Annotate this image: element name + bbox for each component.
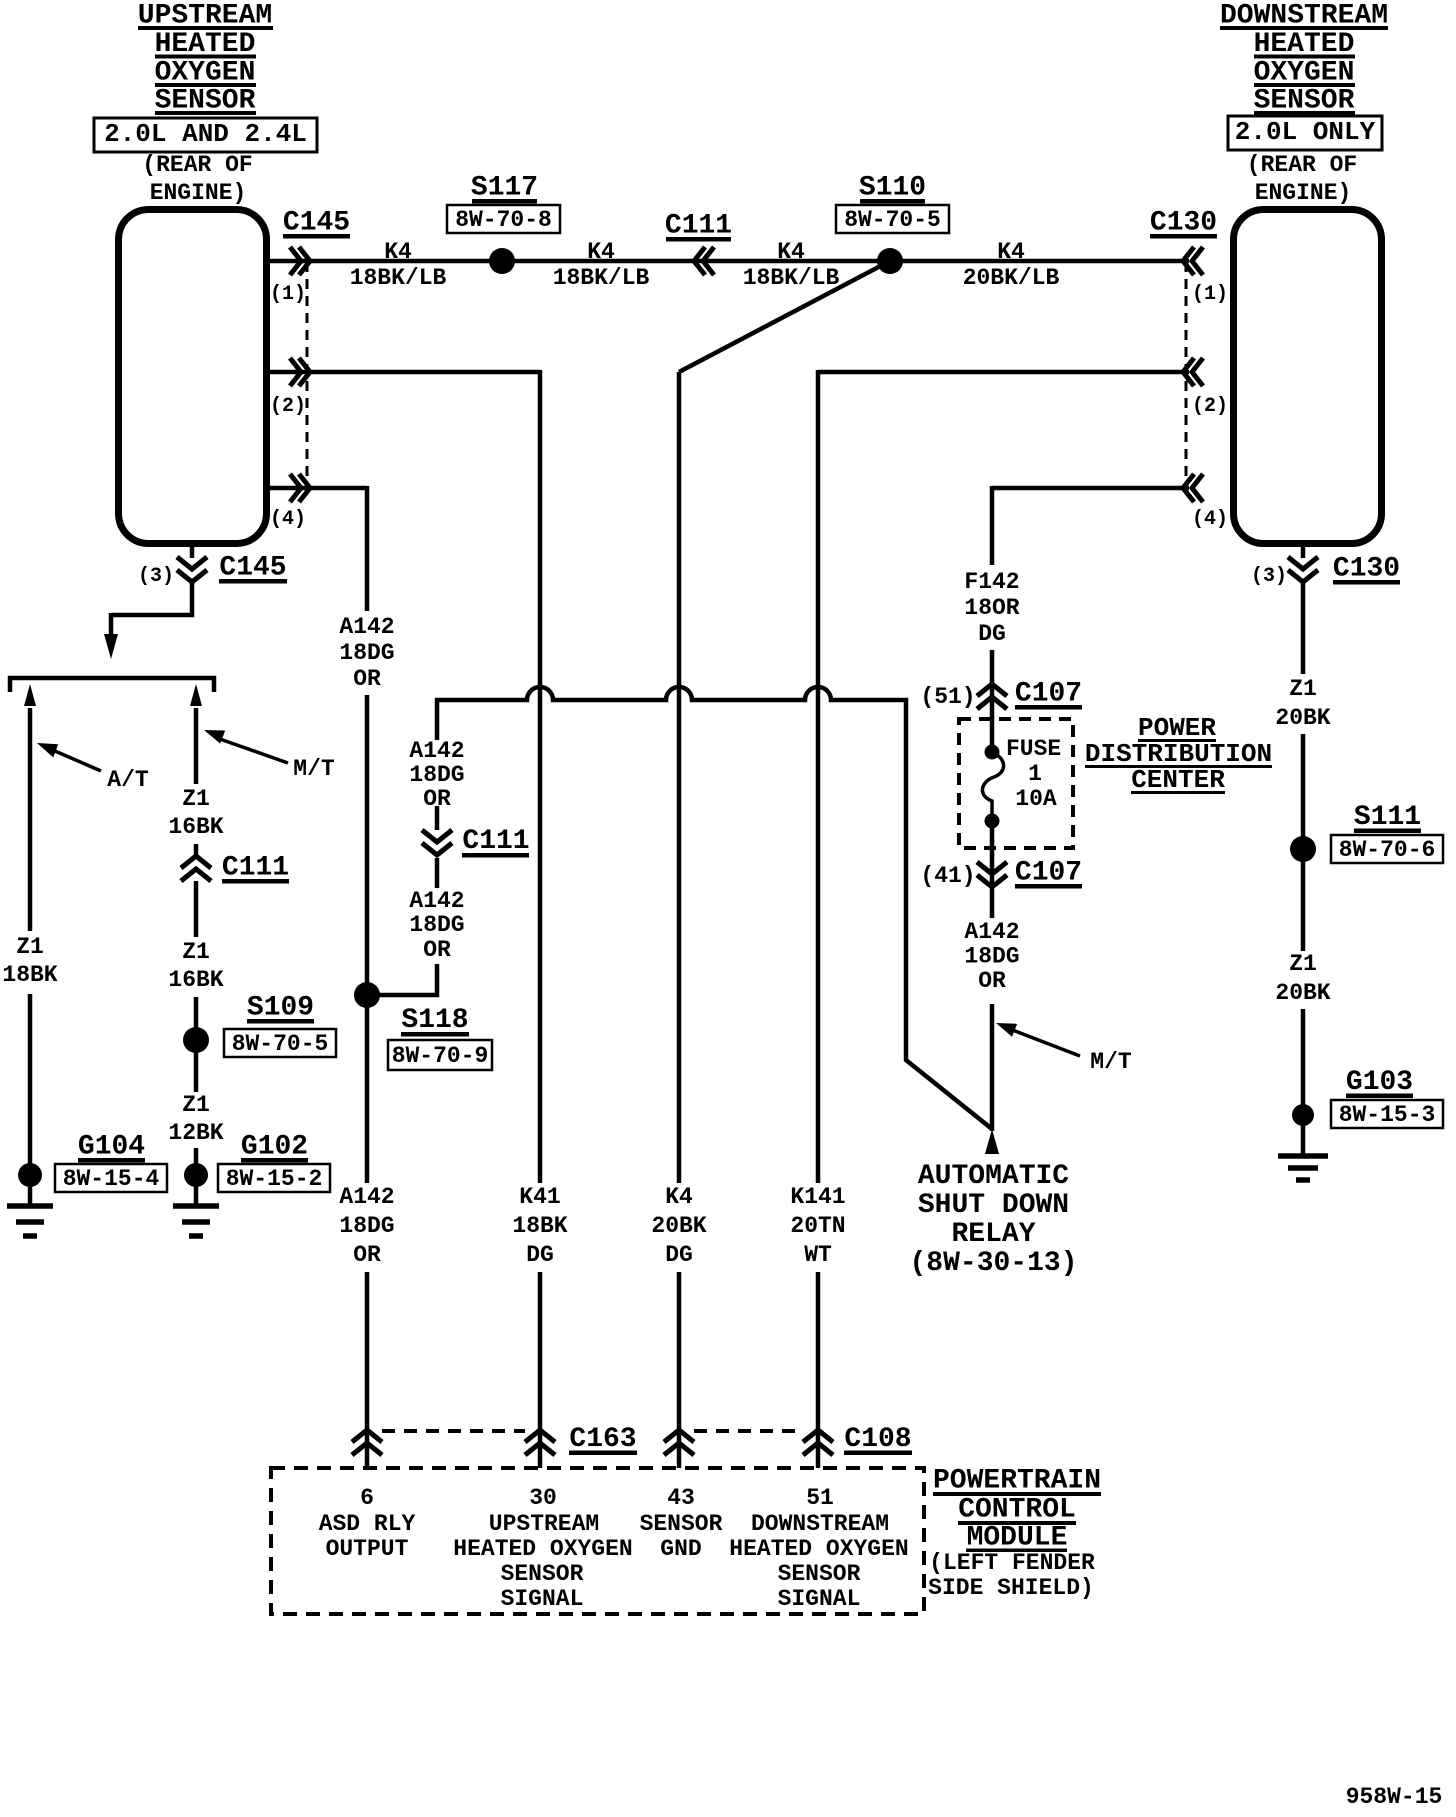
label power distribution center [1085,713,1272,795]
svg-text:C145: C145 [283,208,350,239]
wire K41 vertical seg2 [538,1272,543,1468]
svg-text:K41: K41 [519,1184,560,1210]
ground G103 label [1331,1067,1443,1128]
wire C145 pin3 to selector arrow [111,582,192,615]
ASD relay connection arrowhead [985,1129,999,1154]
svg-text:SENSOR: SENSOR [778,1561,861,1587]
wire K4 from C145 pin1 to C130 pin1 [266,259,1189,264]
svg-text:A142: A142 [339,1184,394,1210]
arrowhead M/T branch [190,684,202,706]
label wire K141 20TN WT [790,1184,845,1268]
splice S118 junction dot [354,982,380,1008]
connector C130 pin1 chevron [1183,247,1203,275]
svg-text:Z1: Z1 [182,786,210,812]
wire Z1 downstream seg2 [1301,734,1306,951]
label wire K4 18BK/LB segment 3 [743,239,840,291]
connector C111 top chevron [694,247,714,275]
svg-text:8W-70-8: 8W-70-8 [455,207,552,233]
svg-text:S111: S111 [1354,802,1421,833]
label wire Z1 16BK upper [168,786,223,840]
wire S118 branch horizontal [367,964,437,995]
ground G102 label [218,1132,330,1193]
svg-text:20BK: 20BK [1275,980,1330,1006]
svg-text:6: 6 [360,1485,374,1511]
connector C163 pin30 chevron [525,1430,555,1455]
svg-text:SIGNAL: SIGNAL [778,1586,861,1612]
wire F142 vertical seg2 [990,650,995,751]
svg-text:C111: C111 [665,211,732,242]
wire C145 pin4 A142 horizontal [266,486,367,491]
label downstream heated oxygen sensor title [1220,1,1388,117]
svg-text:8W-70-6: 8W-70-6 [1339,837,1436,863]
svg-text:M/T: M/T [1090,1049,1132,1075]
svg-text:K141: K141 [790,1184,845,1210]
pin 6 ASD RLY OUTPUT [319,1485,416,1562]
svg-text:12BK: 12BK [168,1120,223,1146]
wire Z1 M/T branch seg4 [194,997,199,1092]
svg-text:OR: OR [423,937,451,963]
wire A142 vertical seg1 [365,486,370,611]
wire Z1 M/T branch seg5 [194,1148,199,1205]
svg-text:(4): (4) [270,508,306,531]
svg-text:(LEFT FENDER: (LEFT FENDER [929,1550,1095,1576]
label 2.0L AND 2.4L box [94,118,317,152]
svg-text:ENGINE): ENGINE) [1255,180,1352,206]
wire K4 sensor ground vertical seg2 [677,1272,682,1468]
connector C107 upper label [1015,679,1082,710]
svg-text:8W-15-4: 8W-15-4 [63,1166,160,1192]
wire Z1 M/T branch seg2 [194,844,199,856]
connector C111 left label [222,853,289,884]
connector C107 pin51 chevron [977,684,1007,709]
svg-text:8W-70-9: 8W-70-9 [392,1043,489,1069]
svg-text:A142: A142 [409,738,464,764]
label rear of engine left [142,152,252,206]
connector C145 pin1 chevron [290,247,310,275]
connector C145 label top [283,208,350,239]
label wire K4 18BK/LB segment 2 [553,239,650,291]
label wire A142 18DG OR lower [339,1184,394,1268]
connector C145 pin3 chevron [177,557,207,582]
splice S110 junction dot [877,248,903,274]
ground G104 symbol [7,1206,53,1236]
label upstream heated oxygen sensor title [138,1,273,117]
label 2.0L ONLY box [1228,116,1382,150]
svg-text:S118: S118 [401,1005,468,1036]
svg-text:958W-15: 958W-15 [1346,1784,1443,1810]
wire S118 branch vertical seg2 [435,858,440,888]
svg-text:DOWNSTREAM: DOWNSTREAM [751,1511,889,1537]
svg-text:(2): (2) [1192,395,1228,418]
arrow pointer A/T [48,748,101,771]
svg-text:18BK/LB: 18BK/LB [350,265,447,291]
svg-text:8W-70-5: 8W-70-5 [232,1031,329,1057]
svg-text:51: 51 [806,1485,834,1511]
svg-text:2.0L ONLY: 2.0L ONLY [1235,117,1376,147]
svg-text:18DG: 18DG [964,944,1019,970]
connector C130 bottom label [1333,554,1400,585]
svg-text:C163: C163 [569,1424,636,1455]
label wire F142 18OR DG [964,569,1019,647]
svg-text:DG: DG [978,621,1006,647]
svg-text:16BK: 16BK [168,967,223,993]
label wire K4 20BK DG [651,1184,706,1268]
svg-text:(8W-30-13): (8W-30-13) [909,1248,1077,1279]
svg-text:K4: K4 [587,239,615,265]
svg-text:OR: OR [423,786,451,812]
connector C163 dashed link [382,1429,525,1433]
svg-text:(4): (4) [1192,508,1228,531]
svg-text:(1): (1) [270,283,306,306]
svg-text:C145: C145 [219,553,286,584]
svg-text:RELAY: RELAY [951,1219,1035,1250]
connector C145 bottom label [219,553,287,584]
wire A142 vertical seg2 [365,695,370,1183]
label wire Z1 16BK lower [168,939,223,993]
wire A142 vertical seg3 [365,1272,370,1468]
svg-text:SIDE SHIELD): SIDE SHIELD) [928,1575,1094,1601]
svg-text:POWERTRAIN: POWERTRAIN [933,1466,1101,1497]
label wire Z1 20BK upper [1275,676,1330,731]
svg-text:A/T: A/T [107,767,149,793]
svg-text:G103: G103 [1346,1067,1413,1098]
connector C108 dashed link [694,1429,803,1433]
svg-text:K4: K4 [665,1184,693,1210]
arrow pointer M/T [217,738,288,763]
label wire Z1 20BK lower [1275,951,1330,1006]
wire Z1 A/T branch upper [28,708,33,931]
connector C111 left chevron [181,856,211,881]
svg-text:C130: C130 [1333,554,1400,585]
connector C130 pin4 chevron [1183,474,1203,502]
svg-text:1: 1 [1028,761,1042,787]
svg-text:FUSE: FUSE [1006,736,1061,762]
arrow down to transmission selector [109,613,114,640]
wire Z1 A/T branch lower [28,994,33,1205]
svg-text:HEATED OXYGEN: HEATED OXYGEN [453,1536,632,1562]
arrowhead A/T branch [24,684,36,706]
svg-text:S109: S109 [247,993,314,1024]
wire S118 branch top with hops [437,687,992,1129]
svg-text:K4: K4 [384,239,412,265]
wire Z1 downstream seg1 [1301,582,1306,674]
label wire A142 18DG OR branch lower [409,888,464,963]
svg-text:K4: K4 [997,239,1025,265]
svg-text:Z1: Z1 [182,1092,210,1118]
svg-text:2.0L AND 2.4L: 2.0L AND 2.4L [104,119,307,149]
wire C130 pin4 F142 horizontal [992,486,1189,491]
svg-text:OUTPUT: OUTPUT [326,1536,409,1562]
bracket transmission split [10,678,214,692]
connector C111 mid label [462,826,530,858]
svg-text:CENTER: CENTER [1131,765,1225,795]
svg-text:18DG: 18DG [409,762,464,788]
label wire K4 20BK/LB segment 4 [963,239,1060,291]
svg-text:C107: C107 [1015,679,1082,710]
sensor upstream heated oxygen sensor body [119,210,267,544]
arrow pointer M/T relay [1010,1029,1080,1056]
svg-text:10A: 10A [1015,786,1057,812]
label wire A142 18DG OR branch upper [409,738,464,812]
splice S117 junction dot [489,248,515,274]
svg-text:(3): (3) [1251,565,1287,588]
svg-text:HEATED OXYGEN: HEATED OXYGEN [729,1536,908,1562]
wire K141 vertical seg1 [816,370,821,1183]
svg-text:UPSTREAM: UPSTREAM [489,1511,599,1537]
ground G103 symbol [1278,1156,1328,1180]
wire fuse to C107 pin41 [990,820,995,918]
wire K4 sensor ground vertical seg1 [677,372,682,1183]
svg-text:(REAR OF: (REAR OF [142,152,252,178]
label wire Z1 12BK [168,1092,223,1146]
splice S109 label [224,993,336,1058]
svg-text:(3): (3) [138,565,174,588]
svg-text:GND: GND [660,1536,701,1562]
svg-text:C111: C111 [462,826,529,857]
connector C130 pin2 chevron [1183,358,1203,386]
svg-text:F142: F142 [964,569,1019,595]
ground G104 label [55,1132,167,1193]
svg-text:20BK/LB: 20BK/LB [963,265,1060,291]
svg-text:OR: OR [978,968,1006,994]
connector C111 top label [665,211,732,242]
svg-text:43: 43 [667,1485,695,1511]
connector C130 pin3 chevron [1288,557,1318,582]
splice S109 junction dot [183,1027,209,1053]
wire Z1 downstream seg3 [1301,1009,1306,1155]
svg-text:Z1: Z1 [182,939,210,965]
label wire A142 18DG OR upper [339,614,394,692]
sensor downstream heated oxygen sensor body [1234,210,1382,544]
connector C107 lower label [1015,858,1082,889]
label powertrain control module [928,1466,1101,1602]
svg-text:8W-15-3: 8W-15-3 [1339,1102,1436,1128]
connector C108 pin43 chevron [664,1430,694,1455]
pin 51 downstream signal [729,1485,908,1612]
wire C145 pin3 down stub [190,544,195,558]
connector C108 label [844,1424,912,1455]
svg-text:18DG: 18DG [409,912,464,938]
wire Z1 M/T branch seg1 [194,708,199,784]
pin 43 sensor gnd [640,1485,723,1562]
ground G103 junction dot [1292,1104,1314,1126]
svg-text:G102: G102 [241,1132,308,1163]
label wire K4 18BK/LB segment 1 [350,239,447,291]
svg-text:SENSOR: SENSOR [501,1561,584,1587]
label wire K41 18BK DG [512,1184,567,1268]
svg-text:SIGNAL: SIGNAL [501,1586,584,1612]
svg-text:18BK/LB: 18BK/LB [553,265,650,291]
label automatic shut down relay [909,1161,1077,1279]
svg-text:DG: DG [665,1242,693,1268]
svg-text:DG: DG [526,1242,554,1268]
wire S118 branch vertical seg3 [435,806,440,830]
svg-text:(REAR OF: (REAR OF [1247,152,1357,178]
connector C163 pin6 chevron [352,1430,382,1455]
svg-text:CONTROL: CONTROL [958,1495,1076,1526]
svg-text:M/T: M/T [293,756,335,782]
wire Z1 M/T branch seg3 [194,881,199,937]
svg-text:8W-70-5: 8W-70-5 [844,207,941,233]
label wire Z1 18BK [2,934,57,988]
svg-text:20BK: 20BK [651,1213,706,1239]
svg-text:18BK: 18BK [2,962,57,988]
label rear of engine right [1247,152,1357,206]
svg-text:Z1: Z1 [1289,951,1317,977]
svg-text:18BK: 18BK [512,1213,567,1239]
wire A142 to ASD relay [990,1004,995,1131]
connector C163 label [569,1424,637,1455]
svg-text:20TN: 20TN [790,1213,845,1239]
connector C130 label top [1150,208,1217,239]
svg-text:C111: C111 [222,853,289,884]
svg-text:(41): (41) [920,863,975,889]
svg-text:C108: C108 [844,1424,911,1455]
wire F142 vertical seg1 [990,486,995,565]
wire K141 vertical seg2 [816,1272,821,1468]
svg-text:A142: A142 [409,888,464,914]
pin 30 upstream signal [453,1485,632,1612]
svg-text:G104: G104 [78,1132,145,1163]
connector C145 dashed line [306,262,309,490]
svg-text:S117: S117 [471,173,538,204]
svg-text:OR: OR [353,666,381,692]
svg-text:18OR: 18OR [964,595,1019,621]
wire C145 pin2 K41 horizontal [266,370,540,375]
connector C130 dashed line [1185,262,1188,490]
power distribution center dashed box [959,719,1073,848]
wire C130 pin3 down stub [1301,544,1306,558]
splice S110 label [836,173,949,234]
splice S117 label [447,173,560,234]
label wire A142 18DG OR fuse side [964,919,1019,994]
svg-text:A142: A142 [339,614,394,640]
svg-text:Z1: Z1 [1289,676,1317,702]
svg-text:18DG: 18DG [339,640,394,666]
svg-text:K4: K4 [777,239,805,265]
splice S118 label [388,1005,492,1070]
powertrain control module dashed box [271,1468,924,1614]
fuse F1 label [1006,736,1061,812]
connector C145 pin4 chevron [290,474,310,502]
connector C107 pin41 chevron [977,862,1007,887]
svg-text:Z1: Z1 [16,934,44,960]
svg-text:30: 30 [529,1485,557,1511]
svg-text:20BK: 20BK [1275,705,1330,731]
wire C130 pin2 K141 horizontal [818,370,1189,375]
wire K41 vertical seg1 [538,370,543,1183]
connector C111 mid chevron [422,830,452,855]
splice S111 junction dot [1290,836,1316,862]
svg-text:S110: S110 [859,173,926,204]
svg-text:(51): (51) [920,684,975,710]
connector C108 pin51 chevron [803,1430,833,1455]
svg-text:AUTOMATIC: AUTOMATIC [918,1161,1069,1192]
svg-text:18BK/LB: 18BK/LB [743,265,840,291]
ground G104 junction dot [18,1163,42,1187]
svg-text:SHUT DOWN: SHUT DOWN [918,1190,1069,1221]
svg-text:ASD RLY: ASD RLY [319,1511,416,1537]
svg-text:C107: C107 [1015,858,1082,889]
fuse F1 element [982,745,1003,829]
svg-text:ENGINE): ENGINE) [150,180,247,206]
svg-text:WT: WT [804,1242,832,1268]
ground G102 symbol [173,1206,219,1236]
connector C145 pin2 chevron [290,358,310,386]
svg-text:SENSOR: SENSOR [640,1511,723,1537]
svg-text:18DG: 18DG [339,1213,394,1239]
svg-text:16BK: 16BK [168,814,223,840]
svg-text:A142: A142 [964,919,1019,945]
ground G102 junction dot [184,1163,208,1187]
svg-text:OR: OR [353,1242,381,1268]
svg-text:(2): (2) [270,395,306,418]
svg-text:(1): (1) [1192,283,1228,306]
svg-text:C130: C130 [1150,208,1217,239]
wire diagonal from S110 to K4 sensor ground vertical [679,261,890,372]
splice S111 label [1331,802,1443,863]
svg-text:8W-15-2: 8W-15-2 [226,1166,323,1192]
